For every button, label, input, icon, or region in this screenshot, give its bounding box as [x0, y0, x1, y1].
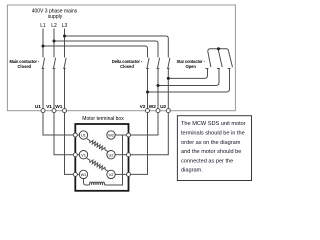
svg-text:L2: L2 [51, 23, 57, 29]
svg-text:Motor terminal box: Motor terminal box [82, 116, 124, 122]
svg-text:terminals should be in the: terminals should be in the [181, 131, 245, 137]
svg-text:Open: Open [185, 64, 196, 69]
svg-text:and the motor should be: and the motor should be [181, 149, 241, 155]
svg-text:U1: U1 [81, 133, 86, 138]
svg-text:U1: U1 [35, 104, 41, 110]
svg-text:U2: U2 [109, 152, 114, 157]
svg-text:diagram.: diagram. [181, 168, 203, 174]
svg-text:L3: L3 [62, 23, 68, 29]
svg-text:L1: L1 [40, 23, 46, 29]
svg-text:W2: W2 [149, 104, 156, 110]
svg-text:supply: supply [48, 14, 63, 20]
svg-text:V1: V1 [46, 104, 52, 110]
svg-text:W2: W2 [108, 133, 114, 138]
svg-text:Closed: Closed [120, 64, 134, 69]
svg-text:Closed: Closed [17, 64, 31, 69]
svg-text:order as on the diagram: order as on the diagram [181, 140, 241, 146]
svg-text:W1: W1 [55, 104, 62, 110]
svg-text:W1: W1 [81, 172, 87, 177]
svg-text:The MCW SDS unit motor: The MCW SDS unit motor [181, 121, 246, 127]
svg-text:V1: V1 [81, 152, 86, 157]
svg-text:V2: V2 [140, 104, 146, 110]
svg-text:V2: V2 [109, 172, 114, 177]
svg-text:U2: U2 [160, 104, 166, 110]
svg-text:connected as per the: connected as per the [181, 158, 233, 164]
